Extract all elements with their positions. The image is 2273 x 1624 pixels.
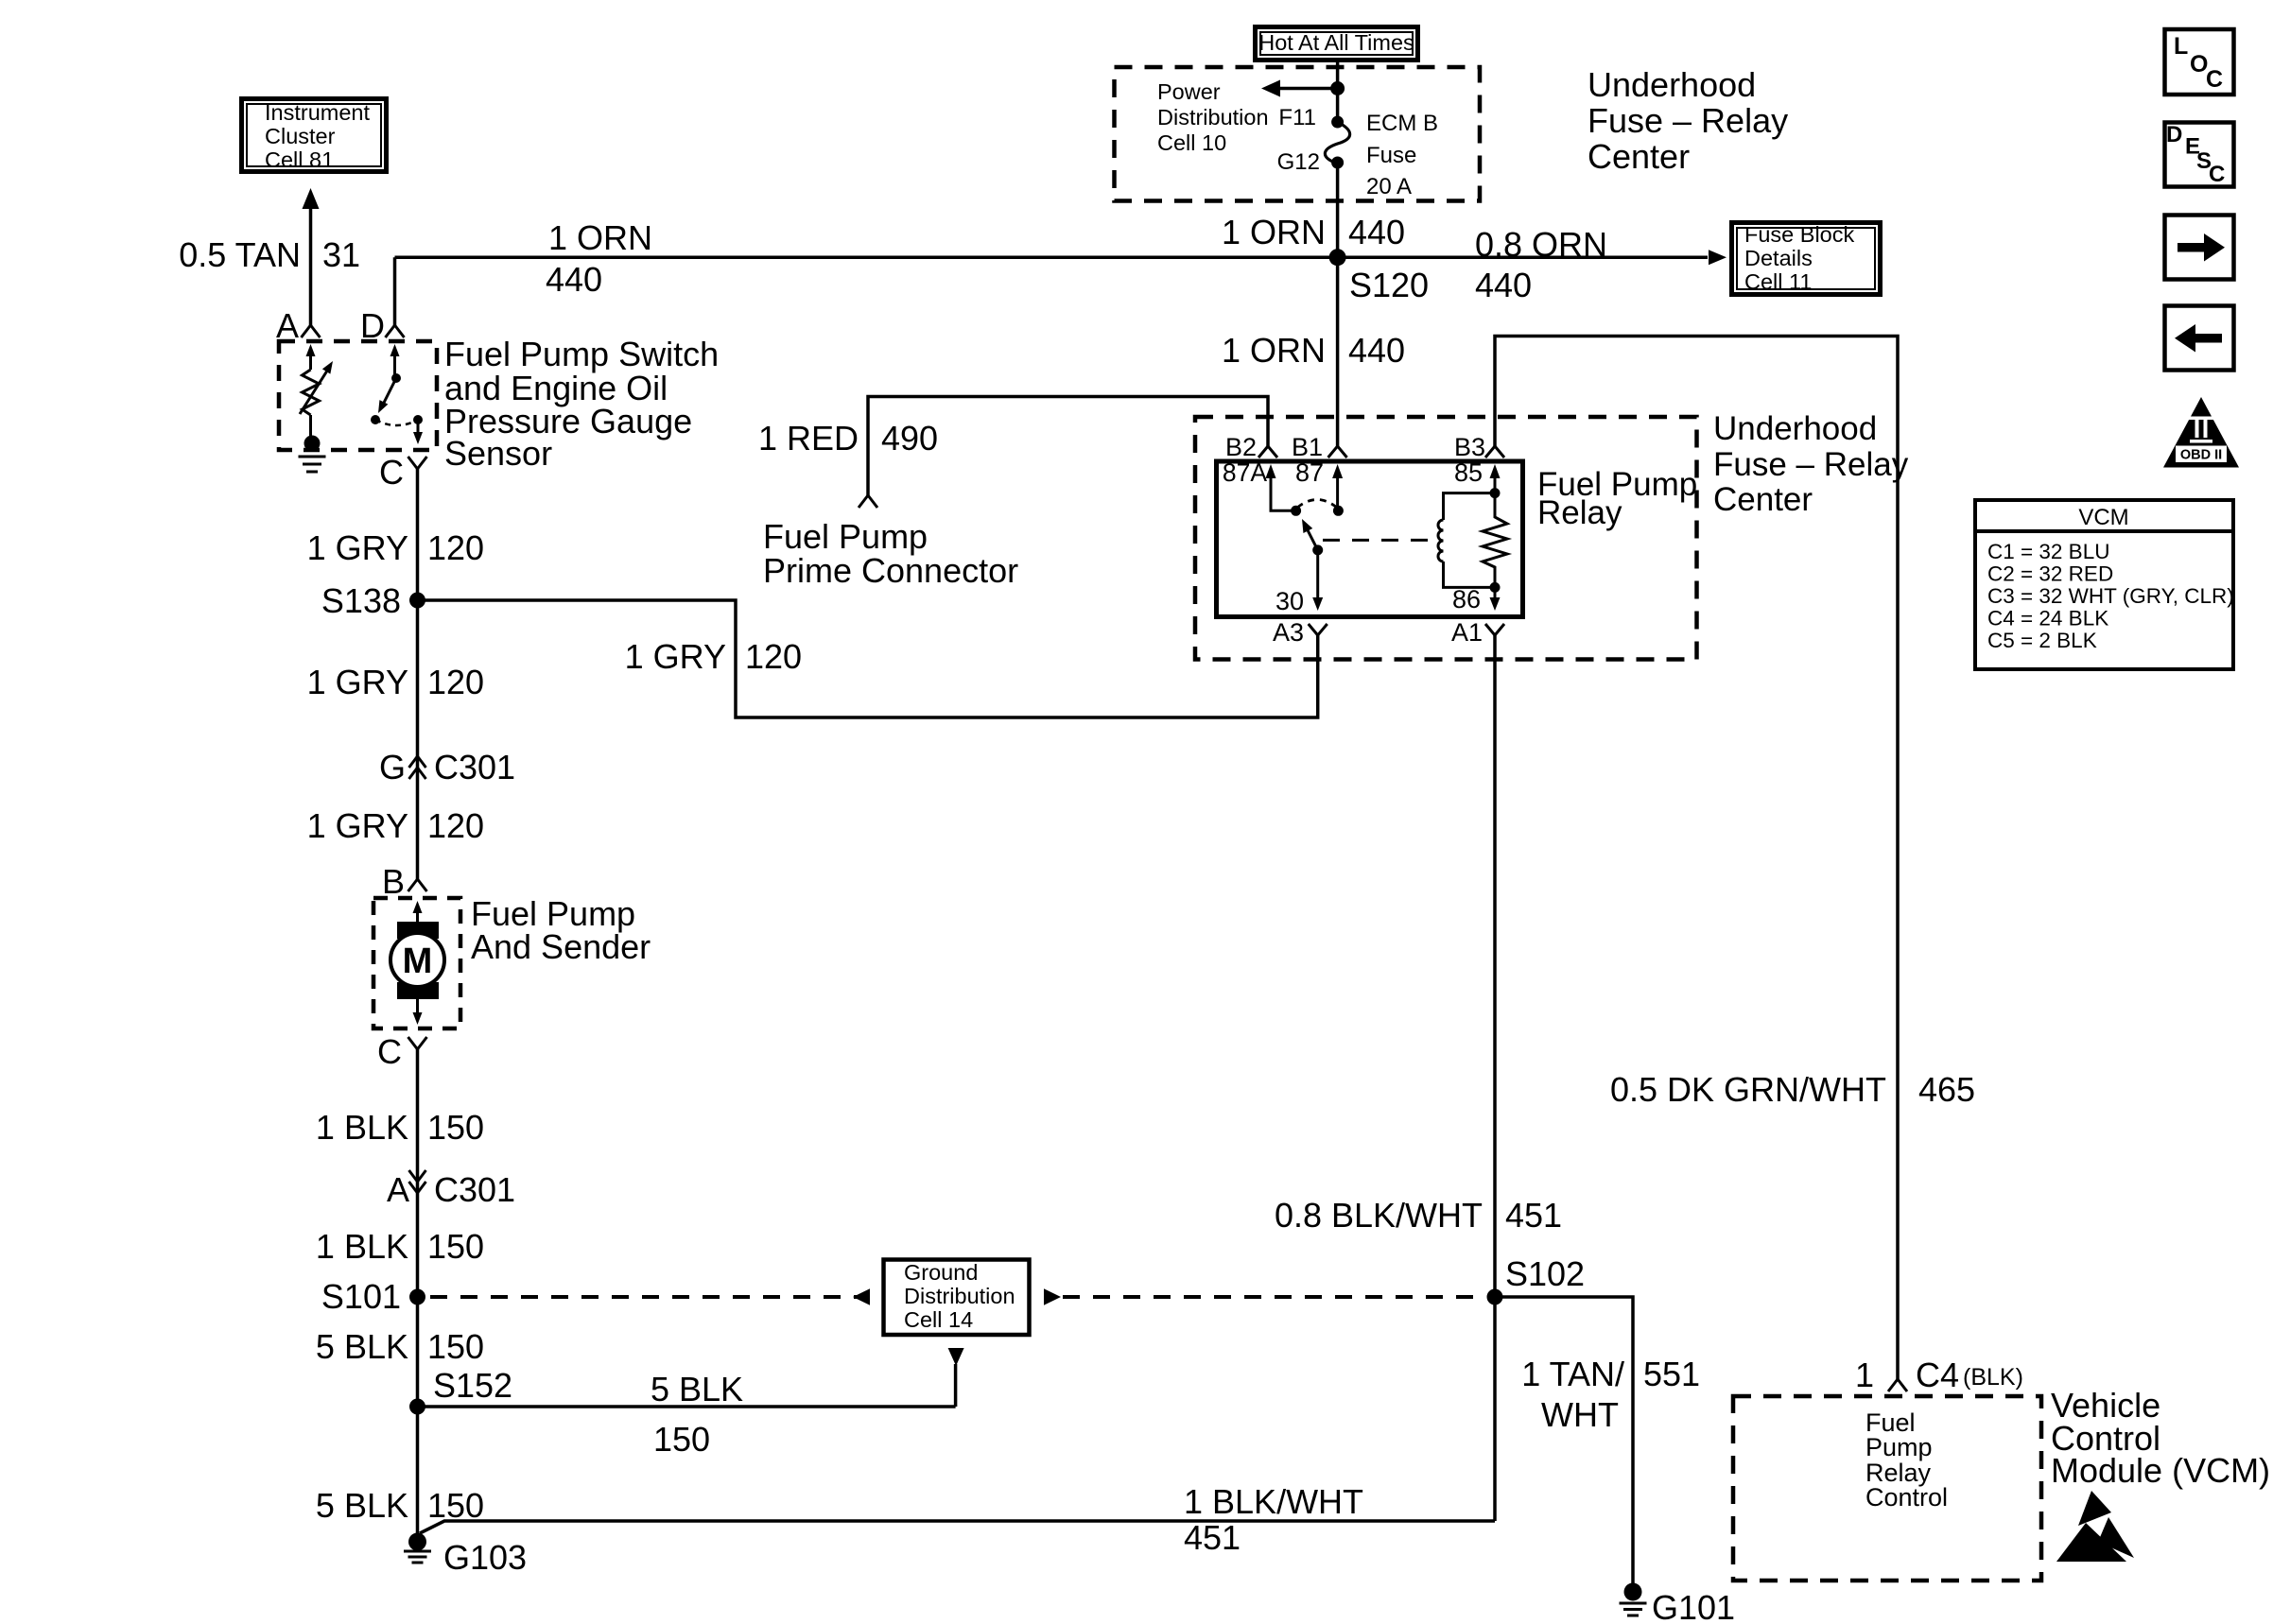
svg-text:S138: S138 xyxy=(321,581,401,620)
component: Fuel Pump And Sender dashed box xyxy=(373,898,460,1028)
svg-text:Underhood: Underhood xyxy=(1588,65,1756,104)
svg-text:150: 150 xyxy=(653,1420,710,1459)
splice S120 xyxy=(1329,249,1346,266)
wire 1 RED 490 fuel pump prime connector feed xyxy=(868,397,1268,496)
relay coil xyxy=(1490,488,1501,498)
svg-text:C: C xyxy=(379,453,404,492)
icon: forward arrow box xyxy=(2165,216,2234,280)
icon: OBD II triangle xyxy=(2163,397,2239,468)
svg-text:S102: S102 xyxy=(1505,1254,1585,1293)
svg-text:1 TAN/: 1 TAN/ xyxy=(1521,1355,1624,1393)
node: Ground Distribution Cell 14 reference box xyxy=(884,1260,1030,1336)
svg-text:C2 = 32 RED: C2 = 32 RED xyxy=(1987,562,2113,586)
relay connector pin B1 xyxy=(1328,446,1338,458)
svg-text:OBD II: OBD II xyxy=(2180,448,2222,463)
relay pin 85 xyxy=(1490,464,1501,478)
svg-text:0.8 BLK/WHT: 0.8 BLK/WHT xyxy=(1275,1196,1483,1235)
svg-text:Center: Center xyxy=(1713,481,1813,518)
svg-text:Underhood: Underhood xyxy=(1713,410,1877,447)
wire 1 ORN 440 from S120 down to relay pin B1 xyxy=(1336,257,1340,446)
svg-text:Cell 14: Cell 14 xyxy=(904,1307,973,1332)
svg-text:Distribution: Distribution xyxy=(904,1284,1015,1308)
svg-text:1 GRY: 1 GRY xyxy=(307,806,408,845)
svg-text:Details: Details xyxy=(1744,246,1813,270)
relay pin 87 xyxy=(1332,464,1343,478)
wire 1 TAN/WHT 551 from S102 to G101 xyxy=(1495,1297,1633,1585)
fuel pump motor M xyxy=(413,901,423,913)
svg-text:31: 31 xyxy=(322,235,360,274)
relay switch blade with arrow xyxy=(1305,525,1318,550)
sender rheostat (variable resistor) inside sensor xyxy=(306,344,316,356)
svg-text:120: 120 xyxy=(427,663,484,701)
svg-text:Relay: Relay xyxy=(1537,494,1622,531)
svg-text:VCM: VCM xyxy=(2078,505,2128,530)
pin D connector of fuel pump switch xyxy=(386,325,395,337)
svg-text:C: C xyxy=(2209,162,2225,187)
switch output arrow to pin C xyxy=(417,420,420,433)
svg-text:30: 30 xyxy=(1275,587,1304,615)
component: Underhood Fuse-Relay Center top dashed box xyxy=(1115,67,1481,201)
svg-text:Module (VCM): Module (VCM) xyxy=(2051,1451,2270,1490)
svg-text:1 RED: 1 RED xyxy=(758,419,859,458)
ground symbol inside sensor (sender ground) xyxy=(304,436,321,452)
svg-text:87: 87 xyxy=(1295,458,1324,487)
wire 1 ORN 440 from fuse to S120 xyxy=(1336,164,1340,257)
svg-text:G: G xyxy=(379,748,406,786)
svg-text:Fuse Block: Fuse Block xyxy=(1744,222,1854,247)
svg-text:G103: G103 xyxy=(443,1538,527,1577)
svg-text:0.5 DK GRN/WHT: 0.5 DK GRN/WHT xyxy=(1610,1070,1886,1109)
pin B connector of fuel pump xyxy=(408,879,418,891)
svg-text:150: 150 xyxy=(427,1108,484,1147)
svg-text:1 BLK/WHT: 1 BLK/WHT xyxy=(1184,1482,1363,1521)
wire 0.5 TAN 31 to instrument cluster with arrowhead xyxy=(309,209,313,325)
svg-text:ECM B: ECM B xyxy=(1366,111,1438,136)
svg-text:Cell 10: Cell 10 xyxy=(1157,130,1226,155)
svg-text:A3: A3 xyxy=(1273,618,1304,647)
arrow from ground distribution box down xyxy=(948,1348,964,1366)
rheostat arrow xyxy=(300,368,329,414)
wire 5 BLK 150 from S152 to ground distribution xyxy=(418,1405,956,1408)
svg-text:C: C xyxy=(2206,66,2223,93)
svg-text:451: 451 xyxy=(1505,1196,1562,1235)
svg-text:1 ORN: 1 ORN xyxy=(548,218,652,257)
svg-text:S152: S152 xyxy=(433,1366,512,1405)
splice S102 xyxy=(1487,1289,1503,1305)
svg-text:C5 = 2 BLK: C5 = 2 BLK xyxy=(1987,629,2097,652)
node: Instrument Cluster Cell 81 reference box xyxy=(242,99,387,172)
relay pin 87A xyxy=(1266,464,1276,478)
svg-text:Power: Power xyxy=(1157,79,1221,104)
component: Fuel Pump Switch and Engine Oil Pressure Gauge Sensor dashed box xyxy=(279,341,437,450)
wire 0.8 ORN 440 to fuse block details with arrowhead xyxy=(1709,250,1726,265)
wire drop to pin D of fuel pump switch xyxy=(393,257,397,326)
svg-text:WHT: WHT xyxy=(1541,1395,1619,1434)
splice S101 xyxy=(409,1289,425,1305)
svg-text:490: 490 xyxy=(881,419,938,458)
svg-text:C: C xyxy=(377,1032,402,1071)
ground G101 xyxy=(1624,1583,1642,1601)
svg-text:B1: B1 xyxy=(1292,433,1323,461)
node: VCM connector legend box xyxy=(1975,500,2233,669)
dashed ground wire Ground Distribution to S102 with arrow xyxy=(1044,1288,1061,1305)
pin A connector of fuel pump switch xyxy=(302,325,311,337)
svg-text:C301: C301 xyxy=(434,1170,515,1209)
svg-text:G101: G101 xyxy=(1652,1588,1735,1624)
icon: DESC box xyxy=(2165,123,2234,187)
svg-text:5 BLK: 5 BLK xyxy=(316,1486,408,1525)
svg-text:1 GRY: 1 GRY xyxy=(307,663,408,701)
svg-text:Cell 11: Cell 11 xyxy=(1744,269,1812,294)
svg-text:1 BLK: 1 BLK xyxy=(316,1227,408,1266)
svg-text:L: L xyxy=(2174,33,2188,60)
switch blade xyxy=(382,380,395,406)
svg-text:85: 85 xyxy=(1454,458,1483,487)
svg-text:20 A: 20 A xyxy=(1366,174,1412,199)
svg-text:5 BLK: 5 BLK xyxy=(316,1327,408,1366)
svg-text:1: 1 xyxy=(1855,1356,1874,1394)
svg-text:1 GRY: 1 GRY xyxy=(625,637,726,676)
component: Fuel Pump Relay box xyxy=(1217,461,1523,617)
icon: LOC box xyxy=(2165,29,2234,95)
svg-text:Ground: Ground xyxy=(904,1260,978,1285)
svg-text:0.5 TAN: 0.5 TAN xyxy=(179,235,301,274)
connector C301 pin G xyxy=(409,756,418,768)
wire 1 ORN 440 horizontal feed xyxy=(395,255,1709,259)
svg-text:S101: S101 xyxy=(321,1277,401,1316)
wire 1 GRY 120 from switch C to S138 xyxy=(416,469,420,879)
connector C4 pin 1 of VCM xyxy=(1888,1379,1898,1391)
svg-text:A: A xyxy=(387,1170,409,1209)
svg-text:86: 86 xyxy=(1452,585,1481,613)
svg-text:1 ORN: 1 ORN xyxy=(1222,331,1326,370)
svg-text:A1: A1 xyxy=(1451,618,1483,647)
svg-text:C301: C301 xyxy=(434,748,515,786)
relay connector pin A1 xyxy=(1485,624,1495,635)
svg-text:Pump: Pump xyxy=(1865,1433,1933,1461)
wire 0.8 BLK/WHT 451 from relay A1 to S102 xyxy=(1493,635,1497,1297)
junction dot to power distribution xyxy=(1330,81,1345,95)
svg-text:Fuse – Relay: Fuse – Relay xyxy=(1713,446,1909,483)
dashed ground wire S101 to Ground Distribution with arrow xyxy=(430,1295,857,1299)
svg-text:Hot At All Times: Hot At All Times xyxy=(1258,30,1414,55)
pin C connector of fuel pump xyxy=(408,1037,418,1049)
relay switch travel dashed arc xyxy=(1297,500,1337,509)
svg-text:150: 150 xyxy=(427,1486,484,1525)
svg-text:Fuel Pump Switch: Fuel Pump Switch xyxy=(444,335,719,373)
svg-text:And Sender: And Sender xyxy=(471,927,651,966)
svg-text:M: M xyxy=(403,942,433,981)
svg-text:F11: F11 xyxy=(1278,105,1316,130)
svg-text:Cell 81: Cell 81 xyxy=(265,147,334,172)
svg-text:Center: Center xyxy=(1588,137,1690,176)
wire 440 feed to relay pin B3 xyxy=(1495,337,1898,1380)
svg-text:120: 120 xyxy=(745,637,802,676)
svg-text:B: B xyxy=(382,862,405,901)
svg-text:440: 440 xyxy=(1348,213,1405,251)
svg-text:120: 120 xyxy=(427,806,484,845)
svg-text:Fuse – Relay: Fuse – Relay xyxy=(1588,101,1788,140)
svg-text:0.8 ORN: 0.8 ORN xyxy=(1475,225,1607,264)
connector C301 pin A xyxy=(409,1170,418,1182)
svg-text:Fuel Pump: Fuel Pump xyxy=(763,517,928,556)
svg-text:Distribution: Distribution xyxy=(1157,105,1269,130)
switch travel dashed arc xyxy=(375,420,418,425)
svg-text:1 ORN: 1 ORN xyxy=(1222,213,1326,251)
svg-text:150: 150 xyxy=(427,1227,484,1266)
svg-text:465: 465 xyxy=(1918,1070,1975,1109)
svg-text:451: 451 xyxy=(1184,1518,1241,1557)
splice S152 xyxy=(409,1399,425,1415)
svg-text:440: 440 xyxy=(1348,331,1405,370)
svg-text:Sensor: Sensor xyxy=(444,434,552,473)
fuel pump prime connector terminal xyxy=(859,495,868,508)
svg-text:1 GRY: 1 GRY xyxy=(307,528,408,567)
svg-text:C3 = 32 WHT (GRY, CLR): C3 = 32 WHT (GRY, CLR) xyxy=(1987,584,2234,608)
node: Fuse Block Details Cell 11 reference box xyxy=(1732,223,1881,295)
relay pin 86 xyxy=(1494,587,1497,597)
wire from Hot At All Times into fuse block xyxy=(1336,62,1340,121)
ground G103 xyxy=(408,1533,426,1551)
svg-text:Fuse: Fuse xyxy=(1366,143,1416,168)
wire 1 BLK 150 from pump C to C301 xyxy=(416,1049,420,1542)
svg-text:150: 150 xyxy=(427,1327,484,1366)
svg-text:5 BLK: 5 BLK xyxy=(651,1370,743,1408)
svg-text:Prime Connector: Prime Connector xyxy=(763,551,1018,590)
svg-text:87A: 87A xyxy=(1223,458,1267,487)
svg-text:C4 = 24 BLK: C4 = 24 BLK xyxy=(1987,607,2108,631)
svg-text:440: 440 xyxy=(1475,266,1532,304)
relay connector pin B2 xyxy=(1258,446,1268,458)
svg-text:S120: S120 xyxy=(1349,266,1429,304)
node: Hot At All Times box xyxy=(1256,27,1418,60)
svg-text:B3: B3 xyxy=(1454,433,1485,461)
ESD sensitive device symbol xyxy=(2078,1491,2111,1526)
svg-text:C4: C4 xyxy=(1916,1356,1959,1394)
wire 1 BLK/WHT 451 from G103 to S102 branch xyxy=(420,1521,1495,1533)
relay coil dashed actuation line xyxy=(1323,539,1430,542)
svg-text:Cluster: Cluster xyxy=(265,124,336,148)
relay connector pin A3 xyxy=(1309,624,1318,635)
svg-text:C1 = 32 BLU: C1 = 32 BLU xyxy=(1987,540,2109,563)
svg-text:1 BLK: 1 BLK xyxy=(316,1108,408,1147)
arrow to power distribution cell 10 xyxy=(1278,87,1338,91)
icon: back arrow box xyxy=(2165,306,2234,371)
wire 1 GRY 120 from S138 to relay pin A3 xyxy=(418,600,1318,717)
splice S138 xyxy=(409,593,425,609)
svg-text:G12: G12 xyxy=(1277,149,1320,175)
svg-text:Instrument: Instrument xyxy=(265,100,370,125)
component: Underhood Fuse-Relay Center relay dashed box xyxy=(1195,417,1697,660)
svg-text:120: 120 xyxy=(427,528,484,567)
svg-text:(BLK): (BLK) xyxy=(1963,1364,2023,1391)
svg-text:440: 440 xyxy=(546,260,602,299)
fuel pump switch contact from pin D xyxy=(390,344,400,356)
component: Vehicle Control Module dashed box xyxy=(1733,1396,2041,1581)
svg-text:Control: Control xyxy=(1865,1483,1948,1512)
svg-text:551: 551 xyxy=(1643,1355,1700,1393)
svg-text:B2: B2 xyxy=(1225,433,1257,461)
fuse F11/G12 ECM B Fuse 20 A xyxy=(1331,116,1344,129)
relay pin 30 xyxy=(1316,550,1319,597)
pin C connector of fuel pump switch xyxy=(408,457,418,469)
relay coil suppression resistor xyxy=(1483,493,1507,588)
svg-text:D: D xyxy=(2166,122,2182,147)
relay connector pin B3 xyxy=(1485,446,1495,458)
